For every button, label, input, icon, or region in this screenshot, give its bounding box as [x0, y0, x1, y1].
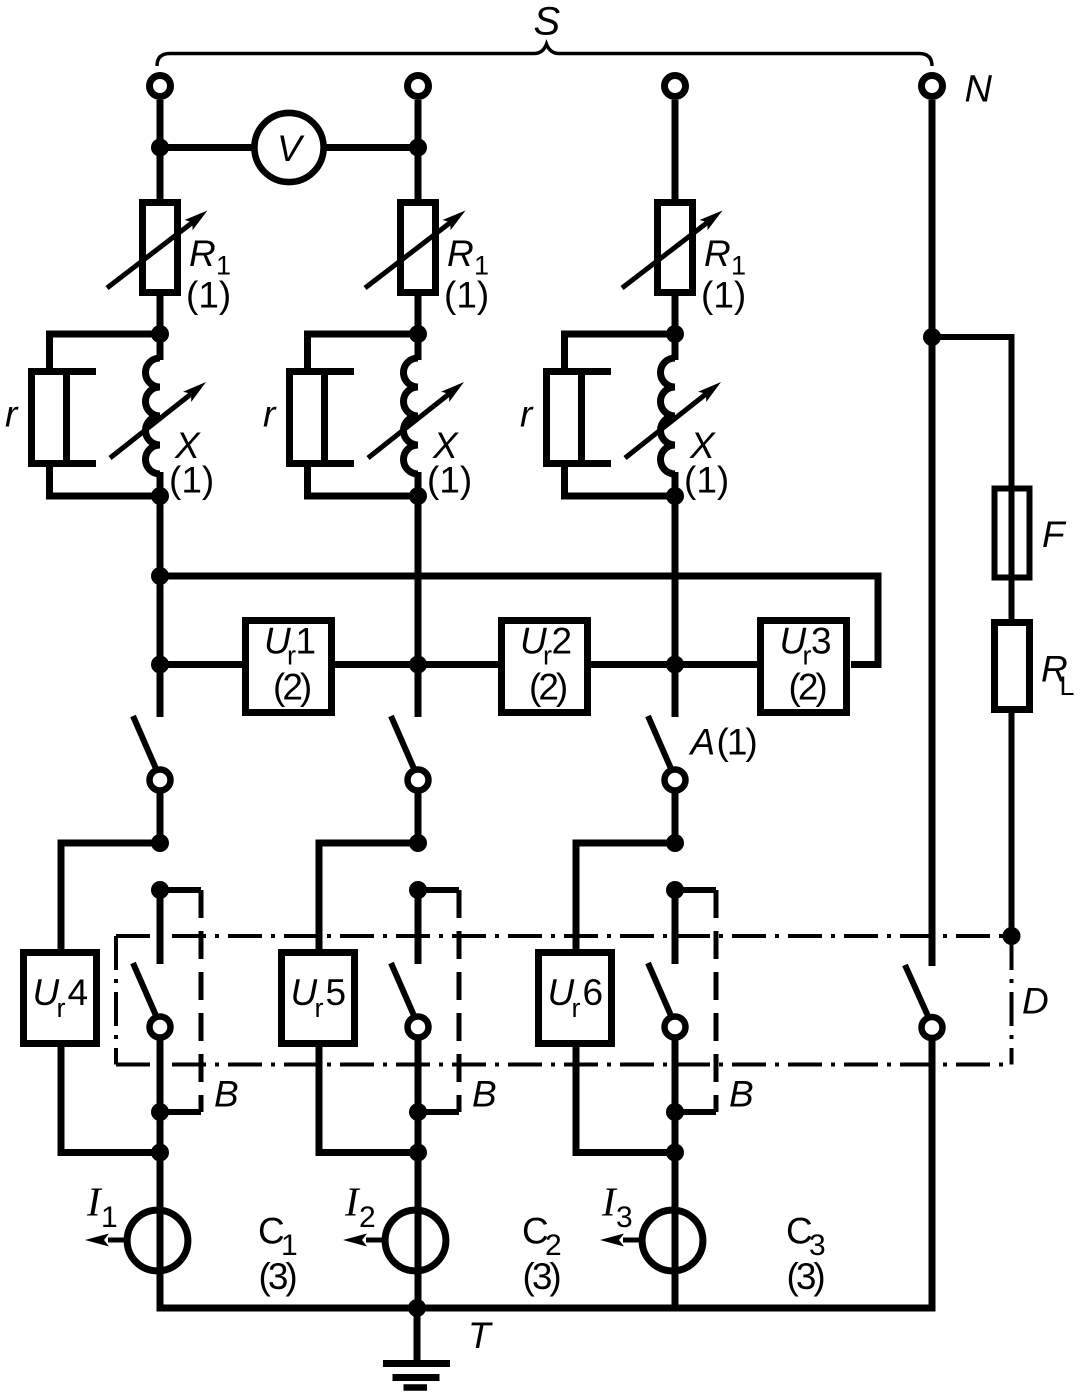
svg-text:B: B: [472, 1074, 497, 1115]
resistor R1 phase 1 arrow: [107, 222, 193, 288]
terminal N (open circle): [922, 76, 943, 97]
junction node L2-V: [409, 139, 427, 157]
resistor R1 phase 2 arrow: [365, 222, 451, 288]
svg-text:R: R: [704, 233, 731, 274]
net label S brace: [157, 44, 932, 66]
switch D blade: [905, 965, 928, 1015]
fuse F: [995, 489, 1030, 578]
switch A phase 1 contact: [150, 770, 171, 791]
wire Ur5 branch top: [319, 843, 418, 952]
junction node L3 bus: [666, 656, 684, 674]
inductor X phase 2 arrow: [368, 394, 449, 458]
node top of r-X combo phase 2: [409, 325, 427, 343]
junction node L1-V: [151, 139, 169, 157]
svg-text:2: 2: [359, 1201, 376, 1234]
wire combo top phase 3: [561, 331, 675, 338]
recorder Ur2 (2): [502, 621, 588, 713]
bus wire to Ur3 return: [160, 576, 878, 665]
wire L3 to Ur3: [675, 661, 761, 668]
voltmeter U1 wire left: [160, 144, 254, 151]
wire switch D down to rail: [929, 1040, 936, 1309]
switch B phase 1 contact: [150, 1017, 171, 1038]
node Ur5 branch top phase 2: [409, 834, 427, 852]
wire coil to node phase 3: [672, 472, 679, 496]
junction node L1 Ur bus: [151, 656, 169, 674]
svg-text:B: B: [214, 1074, 239, 1115]
node top of r-X combo phase 1: [151, 325, 169, 343]
wire phase 1 down to Ur bus: [157, 496, 164, 665]
svg-text:r: r: [520, 394, 534, 435]
svg-text:(1): (1): [186, 275, 231, 316]
wire L3 terminal down to R1: [672, 100, 679, 202]
svg-text:(1): (1): [169, 460, 214, 501]
node bottom of r-X combo phase 1: [151, 487, 169, 505]
wire Ur6 branch top: [576, 843, 675, 952]
wire Ur2 to L3: [588, 661, 675, 668]
recorder Ur1 (2): [246, 621, 332, 713]
svg-text:L: L: [1060, 671, 1075, 701]
wire r top stub phase 1: [46, 331, 53, 372]
svg-text:(3): (3): [787, 1256, 825, 1297]
voltmeter V: [254, 113, 323, 182]
wire to switch A phase 2: [415, 665, 422, 718]
wire Ur1 to L2: [332, 661, 418, 668]
node B frame top phase 2: [409, 881, 427, 899]
current transformer C1 circle: [127, 1210, 188, 1271]
current transformer C3 circle: [642, 1210, 703, 1271]
switch B phase 3 blade: [648, 963, 671, 1015]
wire switch B down phase 2: [415, 1038, 422, 1309]
resistor R1 phase 2 (variable): [401, 203, 436, 293]
svg-text:(2): (2): [273, 667, 311, 708]
wire L2 to Ur2: [418, 661, 501, 668]
wire r bottom stub phase 3: [561, 464, 568, 500]
switch D contact: [922, 1017, 943, 1038]
node Ur6 branch top phase 3: [666, 834, 684, 852]
svg-text:1: 1: [296, 621, 317, 662]
wire N branch to fuse: [932, 337, 1012, 622]
recorder Ur3 (2): [761, 621, 847, 713]
junction node L2 bus: [409, 656, 427, 674]
wire RL down to coupling node: [1009, 713, 1015, 936]
wire combo top phase 2: [304, 331, 418, 338]
svg-text:U: U: [548, 972, 575, 1013]
wire switch B down phase 3: [672, 1038, 679, 1309]
recorder Ur5: [282, 953, 355, 1044]
node B frame top phase 3: [666, 881, 684, 899]
svg-text:R: R: [189, 233, 216, 274]
wire R1 to node, phase 2: [415, 292, 422, 334]
wire Ur bus segment L1-Ur1: [160, 661, 245, 668]
wire Ur4 branch bottom: [61, 1044, 160, 1153]
svg-text:3: 3: [811, 621, 832, 662]
wire node to switch B phase 2: [415, 890, 422, 964]
wire N terminal down to branch node: [929, 100, 936, 337]
node B frame top phase 1: [151, 881, 169, 899]
node top of r-X combo phase 3: [666, 325, 684, 343]
svg-text:A: A: [689, 722, 716, 763]
wire L2 terminal to node: [415, 100, 422, 148]
wire combo bottom phase 3: [561, 493, 675, 500]
wire Ur4 branch top: [61, 843, 160, 952]
wire to switch A phase 1: [157, 665, 164, 718]
svg-text:(1): (1): [444, 275, 489, 316]
svg-text:(2): (2): [529, 667, 567, 708]
terminal L1 (open circle): [150, 76, 171, 97]
switch A phase 2 contact: [408, 770, 429, 791]
svg-text:R: R: [447, 233, 474, 274]
wire combo bottom phase 1: [46, 493, 160, 500]
terminal L3 (open circle): [665, 76, 686, 97]
wire to switch A phase 3: [672, 665, 679, 718]
current arrow I1: [108, 1238, 130, 1243]
svg-text:6: 6: [583, 972, 604, 1013]
resistor r phase 1: [32, 372, 67, 464]
inductor X phase 3 (variable): [661, 358, 676, 474]
terminal L2 (open circle): [408, 76, 429, 97]
node bottom of r-X combo phase 2: [409, 487, 427, 505]
switch A phase 1 blade: [133, 716, 156, 768]
current transformer C2 circle: [385, 1210, 446, 1271]
switch A phase 3 contact: [665, 770, 686, 791]
switch B phase 3 dashed frame: [675, 887, 716, 893]
svg-text:1: 1: [101, 1201, 118, 1234]
recorder Ur6: [539, 953, 612, 1044]
svg-text:U: U: [33, 972, 60, 1013]
wire coil to node phase 2: [415, 472, 422, 496]
resistor r phase 3: [547, 372, 582, 464]
svg-text:N: N: [965, 69, 993, 111]
inductor X phase 1 arrow: [110, 394, 191, 458]
current arrow I3: [623, 1238, 645, 1243]
inductor X phase 3 arrow: [625, 394, 706, 458]
svg-text:B: B: [729, 1074, 754, 1115]
wire r top stub phase 2: [304, 331, 311, 372]
wire L1 node to R1: [157, 148, 164, 203]
wire R1 to node, phase 3: [672, 292, 679, 334]
inductor X phase 1 (variable): [146, 358, 161, 474]
wire switch A to node phase 1: [157, 791, 164, 844]
wire node to switch B phase 1: [157, 890, 164, 964]
svg-text:D: D: [1022, 981, 1049, 1022]
wire node to coil phase 1: [157, 334, 164, 360]
svg-text:r: r: [57, 993, 66, 1023]
node N branch: [923, 328, 941, 346]
svg-text:(1): (1): [684, 460, 729, 501]
svg-text:U: U: [291, 972, 318, 1013]
wire switch B down phase 1: [157, 1038, 164, 1309]
coupling frame (dash-dot) top: [116, 934, 1012, 938]
wire node to coil phase 3: [672, 334, 679, 360]
wire L1 terminal to node: [157, 100, 164, 148]
svg-text:(1): (1): [701, 275, 746, 316]
ground symbol: [414, 1308, 421, 1364]
switch B phase 2 dashed frame: [418, 887, 459, 893]
wire bottom rail T: [157, 1305, 936, 1312]
switch A phase 3 blade: [648, 716, 671, 768]
wire N down to switch D: [929, 337, 936, 966]
resistor R1 phase 1 (variable): [143, 203, 178, 293]
svg-text:5: 5: [326, 972, 347, 1013]
coupling frame (dash-dot) bottom: [116, 1063, 1012, 1067]
svg-text:r: r: [315, 993, 324, 1023]
svg-text:r: r: [572, 993, 581, 1023]
wire L2 node to R1: [415, 148, 422, 203]
wire coil to node phase 1: [157, 472, 164, 496]
node Ur4 branch top phase 1: [151, 834, 169, 852]
inductor X phase 2 (variable): [404, 358, 419, 474]
wire combo top phase 1: [46, 331, 160, 338]
switch B phase 3 contact: [665, 1017, 686, 1038]
svg-text:(3): (3): [523, 1256, 561, 1297]
wire r top stub phase 3: [561, 331, 568, 372]
wire switch A to node phase 2: [415, 791, 422, 844]
svg-text:V: V: [277, 128, 305, 169]
switch B phase 1 dashed frame: [160, 887, 201, 893]
node Ur5 branch bottom phase 2: [409, 1144, 427, 1162]
wire r bottom stub phase 1: [46, 464, 53, 500]
wire node to switch B phase 3: [672, 890, 679, 964]
svg-text:3: 3: [616, 1201, 633, 1234]
svg-text:T: T: [468, 1315, 493, 1356]
svg-text:r: r: [263, 394, 277, 435]
switch B phase 2 blade: [391, 963, 414, 1015]
recorder Ur4: [24, 953, 97, 1044]
node Ur4 branch bottom phase 1: [151, 1144, 169, 1162]
resistor R1 phase 3 (variable): [658, 203, 693, 293]
wire Ur6 branch bottom: [576, 1044, 675, 1153]
svg-text:F: F: [1042, 514, 1067, 555]
resistor R1 phase 3 arrow: [622, 222, 708, 288]
wire combo bottom phase 2: [304, 493, 418, 500]
svg-text:4: 4: [68, 972, 89, 1013]
voltmeter U1 wire right: [323, 144, 418, 151]
svg-text:(3): (3): [259, 1256, 297, 1297]
junction node coupling-RL: [1003, 927, 1021, 945]
wire phase 2 down to Ur bus: [415, 496, 422, 665]
wire R1 to node, phase 1: [157, 292, 164, 334]
node B frame bottom phase 3: [666, 1103, 684, 1121]
current arrow I2: [366, 1238, 388, 1243]
wire node to coil phase 2: [415, 334, 422, 360]
svg-text:2: 2: [552, 621, 573, 662]
coupling frame (dash-dot) right: [1010, 936, 1014, 1065]
node B frame bottom phase 1: [151, 1103, 169, 1121]
svg-text:r: r: [5, 394, 19, 435]
coupling frame (dash-dot) left: [114, 936, 118, 1065]
wire phase 3 down to Ur bus: [672, 496, 679, 665]
resistor RL: [995, 623, 1030, 710]
svg-text:(1): (1): [427, 460, 472, 501]
svg-text:(1): (1): [717, 722, 757, 763]
node B frame bottom phase 2: [409, 1103, 427, 1121]
resistor r phase 2: [290, 372, 325, 464]
svg-text:(2): (2): [789, 667, 827, 708]
wire switch A to node phase 3: [672, 791, 679, 844]
switch A phase 2 blade: [391, 716, 414, 768]
node Ur6 branch bottom phase 3: [666, 1144, 684, 1162]
switch B phase 1 blade: [133, 963, 156, 1015]
junction node L1 bus: [151, 567, 169, 585]
node ground: [408, 1299, 426, 1317]
switch B phase 2 contact: [408, 1017, 429, 1038]
svg-text:S: S: [534, 0, 561, 44]
node bottom of r-X combo phase 3: [666, 487, 684, 505]
wire Ur5 branch bottom: [319, 1044, 418, 1153]
wire r bottom stub phase 2: [304, 464, 311, 500]
